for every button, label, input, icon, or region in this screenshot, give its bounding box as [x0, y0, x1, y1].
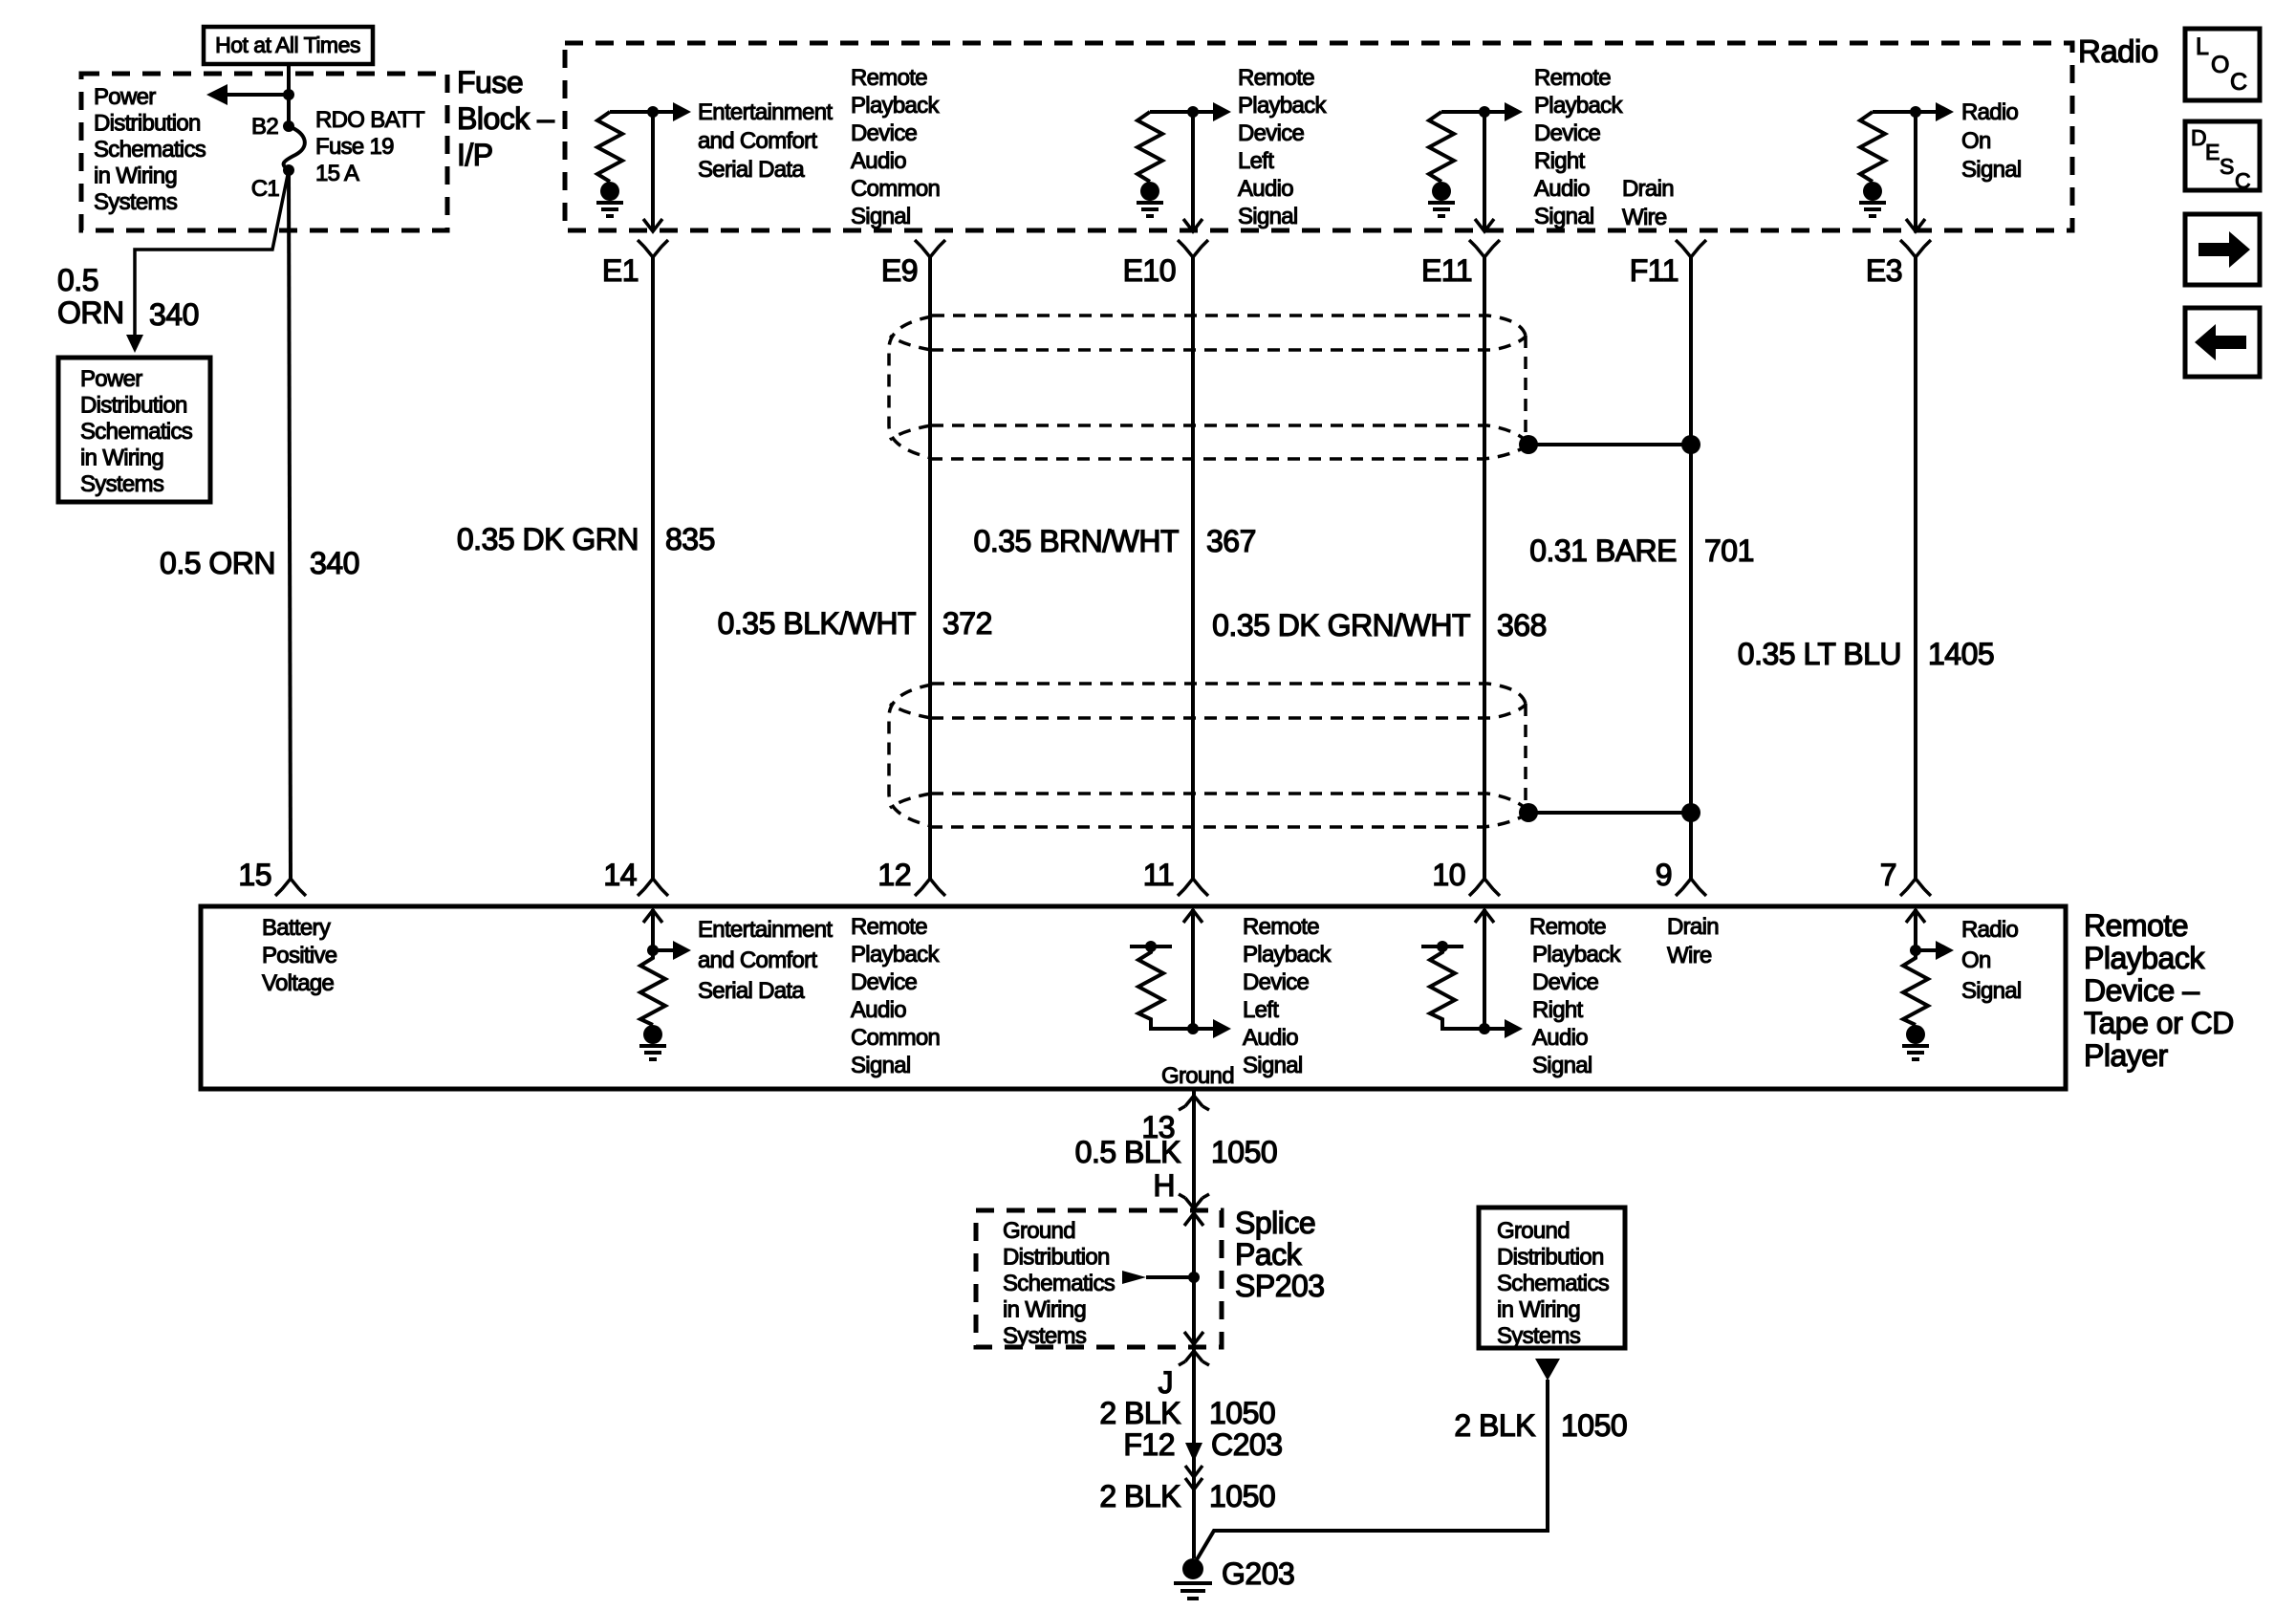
resistor to ground (radio E11 pull-up) — [1428, 112, 1455, 216]
Fuse Block - I/P dashed box — [81, 74, 447, 230]
wire label 0.35 DK GRN 835 — [457, 522, 715, 556]
svg-text:9: 9 — [1656, 858, 1672, 892]
svg-text:ORN: ORN — [57, 295, 124, 330]
svg-text:367: 367 — [1206, 524, 1256, 558]
node C1 — [283, 164, 294, 176]
connector symbol J (splice exit) — [1179, 1351, 1209, 1365]
connector symbol H (splice pack entry) — [1179, 1194, 1209, 1208]
drain wire junction from upper shield to F11 — [1519, 435, 1700, 454]
wire E10 to pin 11 — [1191, 257, 1195, 879]
svg-text:11: 11 — [1143, 858, 1174, 892]
resistor to ground (radio E10 pull-up) — [1137, 112, 1163, 216]
svg-text:1050: 1050 — [1211, 1135, 1277, 1169]
wire splice to G203 — [1192, 1347, 1196, 1558]
wire label 0.5 ORN 340 (lower) — [160, 546, 359, 580]
svg-text:Hot at All Times: Hot at All Times — [215, 33, 360, 57]
svg-text:14: 14 — [603, 858, 637, 892]
resistor to ground (pin 7) — [1902, 950, 1929, 1059]
svg-text:F12: F12 — [1123, 1427, 1175, 1462]
wire 0.5 ORN from C1 to pin 15 — [289, 170, 291, 879]
wire E11 internal with junction and arrow to Remote Playback Device Right Audio Signal — [1441, 102, 1523, 231]
connector symbol pin 12 bottom — [915, 879, 945, 896]
svg-text:E9: E9 — [881, 253, 918, 288]
svg-text:1050: 1050 — [1209, 1396, 1275, 1430]
svg-text:E1: E1 — [602, 253, 639, 288]
wire pin 10 internal with entry arrow and junction — [1475, 909, 1523, 1038]
shield around E9/E10/E11 wires (lower) — [889, 684, 1528, 827]
connector symbol pin 9 bottom — [1676, 879, 1706, 896]
connector symbol E11 top — [1469, 240, 1500, 257]
arrowhead into Power Distribution reference box — [126, 335, 143, 353]
svg-text:E11: E11 — [1421, 253, 1472, 288]
svg-text:C: C — [2235, 168, 2250, 193]
svg-text:0.31 BARE: 0.31 BARE — [1529, 533, 1677, 568]
svg-text:1050: 1050 — [1561, 1408, 1627, 1443]
svg-text:340: 340 — [149, 297, 199, 332]
svg-text:C1: C1 — [251, 176, 280, 202]
svg-text:0.35 LT BLU: 0.35 LT BLU — [1738, 637, 1901, 671]
arrow to power distribution reference (left) — [206, 84, 294, 105]
connector symbol pin 10 bottom — [1469, 879, 1500, 896]
ground G203 — [1174, 1556, 1294, 1599]
svg-text:2 BLK: 2 BLK — [1099, 1479, 1180, 1513]
wire pin 14 internal with entry arrow, junction, arrow to text — [643, 909, 691, 960]
wire F11 drain to pin 9 — [1689, 257, 1693, 879]
drain wire junction from lower shield to F11 — [1519, 803, 1700, 822]
wire label 2 BLK 1050 (lower) — [1099, 1479, 1275, 1513]
wire label 0.35 DK GRN/WHT 368 — [1212, 608, 1547, 642]
arrowhead from reference box down — [1535, 1359, 1560, 1381]
wire diagonal C1 to reference branch — [135, 170, 289, 337]
svg-text:BatteryPositiveVoltage: BatteryPositiveVoltage — [262, 915, 337, 996]
resistor with tap (pin 10) — [1421, 941, 1484, 1029]
svg-text:F11: F11 — [1630, 253, 1679, 288]
svg-text:835: 835 — [665, 522, 715, 556]
svg-text:B2: B2 — [251, 114, 278, 140]
wire label 0.35 LT BLU 1405 — [1738, 637, 1994, 671]
resistor to ground (pin 14) — [639, 950, 666, 1059]
node B2 — [283, 120, 294, 132]
wire through splice pack with entry/exit arrows and junction — [1184, 1210, 1203, 1347]
fuse F19 RDO BATT 15 A — [284, 126, 305, 170]
svg-text:7: 7 — [1880, 858, 1896, 892]
connector symbol pin 15 bottom — [275, 879, 306, 896]
arrow from Schematics text to splice junction — [1122, 1271, 1200, 1284]
svg-text:G203: G203 — [1222, 1556, 1294, 1591]
wire E1 internal with junction and arrow to Entertainment and Comfort Serial Data — [610, 102, 691, 231]
resistor with tap (pin 11) — [1130, 941, 1193, 1029]
connector symbol E10 top — [1178, 240, 1208, 257]
connector symbol F11 top — [1676, 240, 1706, 257]
connector symbol pin 14 bottom — [638, 879, 668, 896]
Ground Distribution Schematics reference box (right) — [1479, 1207, 1625, 1349]
svg-text:0.5 ORN: 0.5 ORN — [160, 546, 275, 580]
connector symbol E3 top — [1900, 240, 1931, 257]
svg-text:0.5: 0.5 — [57, 263, 98, 297]
resistor to ground (radio E3 pull-up) — [1859, 112, 1886, 216]
wire E3 to pin 7 — [1914, 257, 1917, 879]
wire pin 7 internal with entry arrow, junction, arrow to text — [1906, 909, 1954, 960]
svg-text:368: 368 — [1497, 608, 1547, 642]
Hot at All Times label box — [204, 27, 373, 64]
svg-text:E10: E10 — [1123, 253, 1176, 288]
wire pin 11 internal with entry arrow and junction — [1183, 909, 1231, 1038]
connector symbol E9 top — [915, 240, 945, 257]
connector symbol E1 top — [638, 240, 668, 257]
button next arrow — [2185, 214, 2260, 285]
button LOC — [2185, 29, 2260, 100]
wire E3 internal with junction and arrow to Radio On Signal — [1873, 102, 1954, 231]
wire E11 to pin 10 — [1483, 257, 1486, 879]
wire E10 internal with junction and arrow to Remote Playback Device Left Audio Signal — [1150, 102, 1231, 231]
shield around E9/E10/E11 wires (upper) — [889, 315, 1528, 459]
svg-text:15: 15 — [238, 858, 271, 892]
svg-text:C: C — [2230, 69, 2247, 96]
svg-text:0.35 DK GRN/WHT: 0.35 DK GRN/WHT — [1212, 608, 1470, 642]
svg-text:10: 10 — [1432, 858, 1465, 892]
Power Distribution Schematics reference box — [58, 358, 210, 502]
svg-text:0.5 BLK: 0.5 BLK — [1075, 1135, 1181, 1169]
wire from Hot at All Times down to B2 — [287, 64, 291, 126]
wire label 0.35 BRN/WHT 367 — [974, 524, 1256, 558]
wire label 0.31 BARE 701 — [1529, 533, 1754, 568]
svg-text:Ground: Ground — [1161, 1063, 1234, 1089]
svg-text:C203: C203 — [1211, 1427, 1283, 1462]
Radio dashed box — [565, 43, 2072, 230]
svg-text:0.35 DK GRN: 0.35 DK GRN — [457, 522, 639, 556]
svg-text:E: E — [2205, 140, 2220, 164]
wire label 2 BLK 1050 (upper) — [1099, 1396, 1275, 1430]
Splice Pack SP203 dashed box — [976, 1210, 1222, 1347]
wire pin 13 ground to splice pack — [1192, 1091, 1196, 1210]
wire E9 to pin 12 — [928, 257, 932, 879]
svg-text:L: L — [2196, 33, 2209, 60]
connector symbol pin 11 bottom — [1178, 879, 1208, 896]
Remote Playback Device box — [201, 906, 2066, 1089]
svg-text:701: 701 — [1704, 533, 1754, 568]
resistor to ground (radio E1 pull-up) — [596, 112, 623, 216]
svg-text:J: J — [1159, 1365, 1174, 1400]
button previous arrow — [2185, 308, 2260, 377]
svg-text:0.35 BLK/WHT: 0.35 BLK/WHT — [718, 606, 916, 641]
svg-text:1405: 1405 — [1928, 637, 1994, 671]
svg-text:E3: E3 — [1866, 253, 1902, 288]
svg-text:0.35 BRN/WHT: 0.35 BRN/WHT — [974, 524, 1179, 558]
connector C203 pins F12 — [1123, 1427, 1282, 1490]
svg-text:Radio: Radio — [2078, 33, 2158, 69]
svg-text:2 BLK: 2 BLK — [1099, 1396, 1180, 1430]
connector symbol pin 7 bottom — [1900, 879, 1931, 896]
wire E1 to pin 14 — [651, 257, 655, 879]
wire label 0.5 BLK 1050 — [1075, 1135, 1278, 1169]
svg-text:2 BLK: 2 BLK — [1454, 1408, 1535, 1443]
wire label 2 BLK 1050 (right branch) — [1454, 1408, 1627, 1443]
svg-text:12: 12 — [877, 858, 911, 892]
svg-text:O: O — [2211, 52, 2229, 78]
wire label 0.35 BLK/WHT 372 — [718, 606, 992, 641]
svg-text:D: D — [2191, 125, 2206, 150]
svg-text:S: S — [2220, 154, 2234, 179]
wire label 0.5 ORN 340 (upper) — [57, 263, 199, 332]
svg-text:372: 372 — [942, 606, 992, 641]
button DESC — [2185, 121, 2260, 193]
svg-text:1050: 1050 — [1209, 1479, 1275, 1513]
wire from reference box to G203 — [1196, 1380, 1548, 1561]
svg-text:340: 340 — [310, 546, 359, 580]
svg-text:H: H — [1153, 1168, 1175, 1203]
connector symbol pin 13 — [1179, 1096, 1209, 1110]
